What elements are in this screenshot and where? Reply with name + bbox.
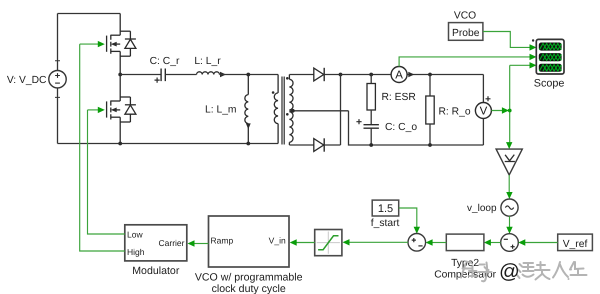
gate wire Q2 (green)	[88, 109, 99, 111]
wire: VCO ramp to modulator carrier (green)	[194, 243, 209, 245]
Type2 Compensator block	[446, 234, 484, 251]
wire: top rail to ammeter	[341, 74, 392, 76]
wire: probe to scope input 1 (green)	[483, 32, 530, 48]
wire: compensator to sum2 (green)	[432, 242, 447, 244]
wire: bottom rail (primary)	[58, 143, 279, 145]
wire: top rail	[58, 13, 121, 15]
mosfet Q1 (top)	[107, 14, 136, 75]
svg-text:R: R_o: R: R_o	[439, 106, 471, 117]
polarity dots	[272, 91, 275, 94]
wire: voltmeter bottom	[482, 119, 484, 146]
svg-text:Scope: Scope	[534, 78, 565, 90]
node: R_o bottom	[428, 143, 432, 147]
wire: midpoint to C_r	[120, 74, 161, 76]
capacitor C_o	[364, 125, 379, 129]
wire: C_o bottom	[370, 128, 372, 145]
mosfet Q2 (bottom)	[107, 75, 136, 144]
node: voltmeter signal junction	[508, 109, 512, 113]
wire: sum1 to compensator (green)	[490, 242, 501, 244]
wire: modulator low to Q2 gate (green)	[88, 110, 125, 234]
wire: R_o branch top	[429, 75, 431, 97]
svg-text:High: High	[127, 247, 145, 257]
svg-text:Modulator: Modulator	[132, 265, 180, 277]
svg-text:Probe: Probe	[452, 28, 480, 39]
wire: center tap drop and bottom output rail	[349, 111, 484, 145]
wire: D2 to cathode riser	[324, 144, 340, 146]
wire: ESR to C_o	[370, 110, 372, 125]
wire: C_r to L_r	[165, 74, 196, 76]
transformer core	[282, 77, 284, 145]
transformer primary	[274, 75, 278, 144]
svg-text:C: C_r: C: C_r	[150, 56, 180, 67]
transformer secondary winding 1	[289, 75, 293, 110]
sum1	[501, 234, 519, 252]
svg-text:Carrier: Carrier	[159, 238, 185, 248]
svg-text:L: L_r: L: L_r	[194, 56, 221, 67]
wire: D1 to node	[324, 74, 340, 76]
svg-text:V: V	[480, 106, 488, 118]
voltmeter V1	[475, 103, 491, 119]
inductor L_r	[197, 72, 220, 75]
svg-text:A: A	[395, 70, 403, 82]
watermark	[461, 262, 587, 282]
node: bottom rail at Q2 source	[118, 142, 122, 146]
svg-text:V: V_DC: V: V_DC	[7, 75, 47, 86]
wire: V_ref to sum1 (green)	[525, 242, 558, 244]
wire: modulator high to Q1 gate (green)	[80, 44, 125, 251]
inductor L_m	[245, 75, 248, 144]
wire: ammeter out	[407, 74, 483, 76]
modulator block	[125, 225, 187, 261]
node: C_o bottom	[369, 143, 373, 147]
wire: secondary top to D1	[289, 74, 313, 76]
svg-text:1.5: 1.5	[378, 203, 393, 215]
body diode D_Q1	[125, 39, 136, 48]
V_ref block	[558, 234, 593, 251]
resistor R: ESR	[367, 84, 375, 111]
svg-text:R: ESR: R: ESR	[382, 92, 416, 103]
svg-text:L: L_m: L: L_m	[205, 105, 236, 116]
resistor R: R_o	[426, 96, 434, 124]
wire: 1.5 to sum2 (green)	[399, 208, 417, 227]
svg-text:v_loop: v_loop	[467, 203, 497, 214]
VCO block	[209, 216, 290, 267]
wire: ammeter to scope input 2 (green)	[399, 57, 529, 67]
saturation block	[315, 230, 342, 256]
wire: ESR branch top	[370, 75, 372, 84]
gate wire Q1 (green)	[80, 43, 98, 45]
wire: R_o bottom	[429, 124, 431, 145]
node: L_m top	[246, 73, 250, 77]
wire: center tap	[289, 110, 348, 112]
wire: v_loop to sum1 (green)	[509, 216, 511, 227]
svg-text:f_start: f_start	[371, 218, 400, 229]
wire: gain to v_loop (green)	[508, 175, 510, 192]
wire: cathode riser	[340, 75, 342, 146]
svg-text:C: C_o: C: C_o	[385, 122, 417, 133]
wire: voltmeter to scope input 3 and to gain (green)	[491, 110, 509, 112]
perturbation v_loop	[501, 199, 518, 216]
svg-text:VCO: VCO	[454, 11, 476, 22]
capacitor C_r	[161, 69, 165, 82]
wire: down to voltmeter	[482, 75, 484, 103]
transformer secondary winding 2	[289, 112, 293, 145]
svg-text:@: @	[499, 260, 520, 283]
node: ESR top	[369, 73, 373, 77]
diode D2	[314, 139, 324, 152]
constant 1.5	[372, 200, 399, 216]
node: center tap	[291, 109, 295, 113]
node: half-bridge midpoint	[118, 73, 122, 77]
wire: Vdc bottom lead	[57, 88, 59, 144]
scope	[532, 39, 565, 89]
svg-text:clock duty cycle: clock duty cycle	[212, 283, 286, 294]
node: L_m bottom	[246, 142, 250, 146]
node: rectifier output	[339, 73, 343, 77]
svg-text:Low: Low	[127, 229, 143, 239]
svg-text:V_in: V_in	[269, 236, 286, 246]
svg-text:VCO w/ programmable: VCO w/ programmable	[195, 272, 303, 284]
wire: L_r to node	[220, 74, 279, 76]
wire: sum2 to saturation (green)	[349, 241, 409, 243]
body diode D_Q2	[125, 105, 136, 114]
node: R_o top	[428, 73, 432, 77]
voltage source V_DC	[49, 61, 66, 98]
svg-text:Ramp: Ramp	[211, 236, 234, 246]
wire: secondary bottom to D2	[289, 144, 313, 146]
sum2	[408, 234, 426, 252]
gain K	[506, 142, 512, 149]
svg-text:V_ref: V_ref	[563, 239, 588, 250]
ammeter A1	[391, 67, 407, 83]
diode D1	[314, 68, 324, 81]
wire: Vdc top lead	[57, 14, 59, 71]
wire: saturation to VCO (green)	[296, 242, 315, 244]
